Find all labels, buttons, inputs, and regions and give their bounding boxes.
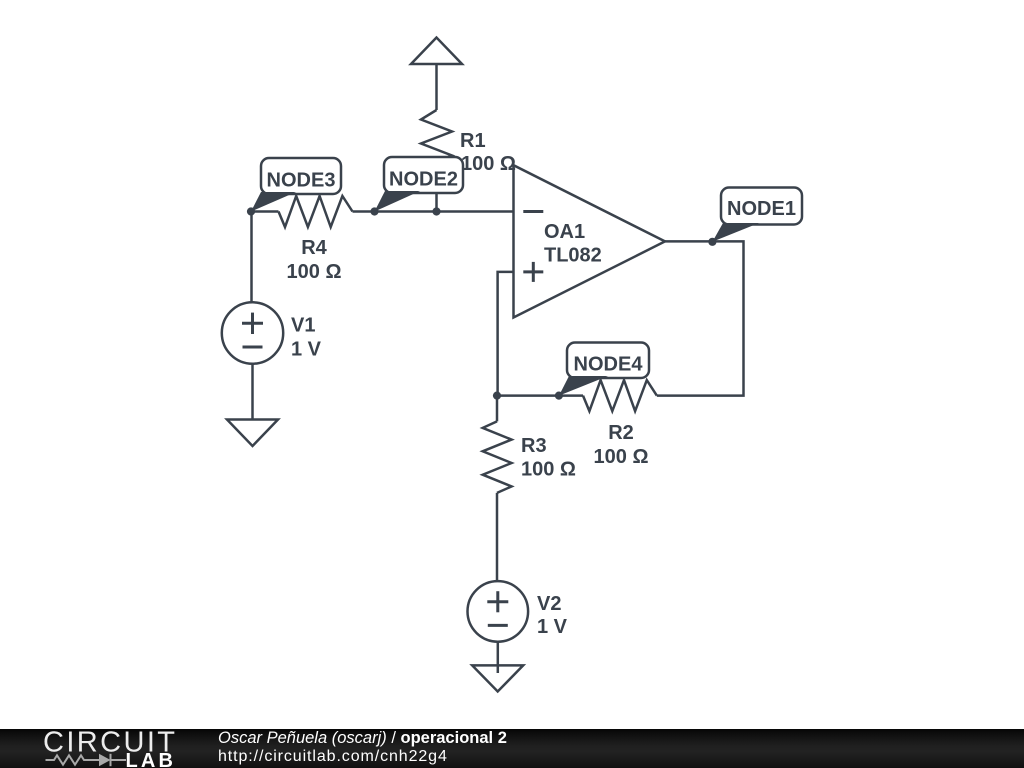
svg-text:V2: V2 (537, 593, 561, 615)
svg-text:1 V: 1 V (291, 338, 322, 360)
svg-text:R2: R2 (608, 422, 634, 444)
svg-text:NODE3: NODE3 (267, 169, 336, 191)
svg-text:1 V: 1 V (537, 616, 568, 638)
svg-text:R3: R3 (521, 435, 547, 457)
svg-text:NODE2: NODE2 (389, 168, 458, 190)
svg-text:NODE1: NODE1 (727, 198, 796, 220)
svg-text:OA1: OA1 (544, 221, 585, 243)
svg-text:R1: R1 (460, 130, 486, 152)
svg-text:R4: R4 (301, 237, 327, 259)
svg-text:NODE4: NODE4 (574, 354, 644, 376)
svg-text:100 Ω: 100 Ω (594, 446, 649, 468)
svg-text:LAB: LAB (126, 750, 177, 768)
svg-text:100 Ω: 100 Ω (461, 153, 516, 175)
svg-text:100 Ω: 100 Ω (521, 459, 576, 481)
svg-text:100 Ω: 100 Ω (287, 261, 342, 283)
svg-text:TL082: TL082 (544, 245, 602, 267)
svg-text:V1: V1 (291, 314, 315, 336)
